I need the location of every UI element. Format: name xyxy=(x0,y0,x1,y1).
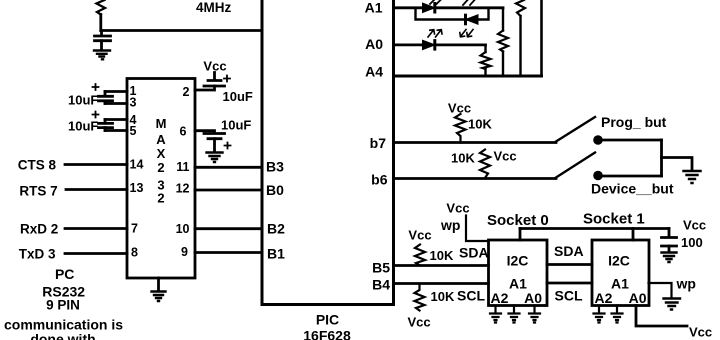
wire TxD to pin 8 xyxy=(65,252,127,255)
resistor R2 (A0 LED) xyxy=(484,45,486,76)
wire socket1 wp to ground xyxy=(649,283,672,298)
svg-text:14: 14 xyxy=(130,158,144,172)
resistor R6 10K (SDA pullup) xyxy=(415,245,425,266)
wire socket0 ground stubs xyxy=(496,306,535,313)
svg-text:SCL: SCL xyxy=(555,288,583,304)
wire socket1 A0 to Vcc xyxy=(636,306,687,327)
svg-text:A: A xyxy=(156,132,166,147)
wire socket0 stub to rail xyxy=(519,229,522,241)
svg-text:13: 13 xyxy=(130,181,144,195)
resistor R3 (upper row, cut off) xyxy=(516,0,525,16)
capacitor C2 10uF (pins 4-5) xyxy=(68,112,127,134)
ground (pin6 cap) xyxy=(207,153,223,163)
capacitor C1 10uF (pins 1-3) xyxy=(68,84,127,108)
svg-text:SDA: SDA xyxy=(554,243,584,259)
wire right vertical (buttons) xyxy=(660,140,663,176)
svg-text:Vcc: Vcc xyxy=(689,325,712,340)
svg-text:PIC: PIC xyxy=(316,312,339,328)
ground (socket0 A1) xyxy=(509,314,520,323)
svg-text:10uF: 10uF xyxy=(68,93,98,108)
svg-text:10: 10 xyxy=(176,222,190,236)
wire pin12 to B0 xyxy=(195,189,262,192)
PIC U1 box (left, right, bottom edges; top cropped) xyxy=(262,0,394,305)
svg-text:Vcc: Vcc xyxy=(494,149,517,164)
switch contact Device xyxy=(593,171,603,181)
svg-text:4MHz: 4MHz xyxy=(196,0,232,15)
svg-text:10uF: 10uF xyxy=(221,118,251,133)
wire B5/SDA to socket0 xyxy=(394,264,489,267)
svg-text:2: 2 xyxy=(157,191,164,206)
svg-text:16F628: 16F628 xyxy=(303,328,351,340)
svg-text:Vcc: Vcc xyxy=(448,101,471,116)
wire Prog contact to right xyxy=(603,139,662,142)
svg-text:X: X xyxy=(157,146,166,161)
svg-text:Socket 0: Socket 0 xyxy=(487,212,549,229)
LED D3 (A0, right-pointing) xyxy=(423,41,435,50)
MAX232 U2 box xyxy=(127,79,195,279)
svg-text:I2C: I2C xyxy=(608,253,630,269)
wire pin9 to B1 xyxy=(195,251,262,254)
svg-text:11: 11 xyxy=(176,160,189,174)
svg-text:A4: A4 xyxy=(365,64,383,80)
LED D2 (A1 reverse, left-pointing) xyxy=(466,15,478,24)
svg-text:SDA: SDA xyxy=(459,245,489,261)
LED D3 arrows (up-right) xyxy=(428,30,442,37)
MAX232 right pin numbers xyxy=(176,85,190,259)
svg-text:7: 7 xyxy=(131,222,138,236)
svg-text:wp: wp xyxy=(440,217,460,233)
wire A0 row xyxy=(394,44,486,47)
resistor R7 10K (SCL pullup) xyxy=(415,284,425,311)
svg-text:10K: 10K xyxy=(430,248,454,263)
ground (socket1 wp) xyxy=(664,299,681,310)
svg-text:6: 6 xyxy=(180,125,187,139)
svg-text:12: 12 xyxy=(176,181,190,195)
svg-text:10uF: 10uF xyxy=(223,89,253,104)
svg-text:3: 3 xyxy=(130,96,137,110)
svg-text:A1: A1 xyxy=(611,276,629,292)
wire oscillator node to PIC OSC pin xyxy=(101,29,262,32)
wire RTS to pin 13 xyxy=(66,188,127,191)
switch lever Prog xyxy=(556,117,595,142)
svg-text:I2C: I2C xyxy=(507,253,529,269)
svg-text:9 PIN: 9 PIN xyxy=(46,297,80,312)
svg-text:A2: A2 xyxy=(595,290,613,306)
svg-text:B2: B2 xyxy=(267,221,285,237)
LED D1 arrows (cut at top) xyxy=(430,0,441,4)
svg-text:Vcc: Vcc xyxy=(683,218,706,233)
svg-text:9: 9 xyxy=(181,245,188,259)
svg-text:5: 5 xyxy=(130,124,137,138)
wire MAX ground stub xyxy=(157,278,160,291)
svg-text:b7: b7 xyxy=(370,135,387,151)
svg-text:A0: A0 xyxy=(629,290,647,306)
svg-text:B4: B4 xyxy=(372,277,390,293)
svg-text:Prog_ but: Prog_ but xyxy=(601,114,667,130)
wire A4 common rail xyxy=(394,75,542,78)
svg-text:SCL: SCL xyxy=(457,288,485,304)
wire anti-parallel branch xyxy=(416,8,489,20)
svg-text:Vcc: Vcc xyxy=(446,201,469,216)
ground (socket0 A0) xyxy=(529,314,540,323)
wire wp to socket0 xyxy=(466,216,489,242)
svg-text:RTS 7: RTS 7 xyxy=(19,184,57,199)
wire far right vertical xyxy=(540,0,543,76)
wire resistor to junction xyxy=(99,15,102,31)
socket 0 I2C box xyxy=(489,240,548,306)
svg-text:100: 100 xyxy=(681,235,703,250)
wire junction to capacitor xyxy=(100,31,103,36)
svg-text:wp: wp xyxy=(676,276,696,292)
svg-text:done with: done with xyxy=(30,331,95,340)
wire Vcc rail (sockets) xyxy=(520,227,669,230)
svg-text:Vcc: Vcc xyxy=(408,228,431,243)
svg-text:Socket 1: Socket 1 xyxy=(583,211,645,228)
wire socket1 ground stubs xyxy=(599,306,617,313)
ground (socket1 A2) xyxy=(594,314,605,323)
wire A1 row xyxy=(394,6,504,9)
capacitor C3 10uF (pin 2 to Vcc) xyxy=(195,73,253,105)
MAX232 left pin numbers xyxy=(130,84,144,260)
svg-text:B0: B0 xyxy=(266,182,284,198)
svg-text:10K: 10K xyxy=(431,289,455,304)
ground (rail cap) xyxy=(662,253,677,263)
resistor R4 10K (b7 pullup) xyxy=(455,114,466,143)
svg-text:b6: b6 xyxy=(371,172,388,188)
label MAX232 vertical xyxy=(156,116,167,206)
wire pin11 to B3 xyxy=(195,166,262,169)
oscillator capacitor xyxy=(95,36,111,41)
svg-text:PC: PC xyxy=(55,266,74,282)
socket 1 I2C box xyxy=(592,240,649,306)
svg-text:2: 2 xyxy=(183,85,190,99)
wire b7 xyxy=(394,141,557,144)
resistor R1 (A1 LED) xyxy=(502,8,504,76)
capacitor C4 10uF (pin 6 to ground) xyxy=(195,118,251,152)
wire socket1 stub to rail xyxy=(632,229,635,241)
LED D2 arrows (down-left) xyxy=(460,0,475,37)
svg-text:Vcc: Vcc xyxy=(408,315,431,330)
svg-text:10K: 10K xyxy=(468,117,492,132)
svg-text:A0: A0 xyxy=(365,36,383,52)
svg-text:B3: B3 xyxy=(266,159,284,175)
ground (socket0 A2) xyxy=(490,314,501,323)
svg-text:10uF: 10uF xyxy=(68,119,98,134)
wire b6 xyxy=(394,177,557,180)
svg-text:A0: A0 xyxy=(524,290,542,306)
svg-text:B5: B5 xyxy=(372,260,390,276)
ground (MAX232 pin15) xyxy=(152,292,166,302)
LED D1 (A1, right-pointing) xyxy=(423,4,435,13)
svg-text:A1: A1 xyxy=(365,0,383,16)
switch lever Device xyxy=(556,153,595,178)
svg-text:A2: A2 xyxy=(491,290,509,306)
resistor R5 10K (b6 pullup) xyxy=(480,150,490,179)
svg-text:RxD 2: RxD 2 xyxy=(20,222,58,237)
svg-text:8: 8 xyxy=(131,246,138,260)
svg-text:10K: 10K xyxy=(451,151,475,166)
wire pin10 to B2 xyxy=(195,227,262,230)
ground (socket1 A1) xyxy=(612,314,623,323)
svg-text:TxD 3: TxD 3 xyxy=(19,247,56,262)
svg-text:CTS 8: CTS 8 xyxy=(18,158,57,173)
capacitor C5 100 (rail decoupling) xyxy=(668,229,671,238)
svg-text:Device__but: Device__but xyxy=(591,181,674,197)
ground (buttons) xyxy=(684,171,701,183)
wire buttons to ground xyxy=(662,158,693,170)
ground (oscillator) xyxy=(94,51,110,60)
wire RxD to pin 7 xyxy=(65,227,127,230)
svg-text:2: 2 xyxy=(157,160,164,175)
switch contact Prog xyxy=(593,135,603,145)
wire capacitor to ground xyxy=(100,41,103,50)
wire SCL between sockets xyxy=(547,282,592,285)
wire Device contact to right xyxy=(603,175,662,178)
oscillator resistor (top left, cut off) xyxy=(97,0,106,15)
svg-text:B1: B1 xyxy=(267,246,285,262)
svg-text:M: M xyxy=(156,116,167,131)
wire SDA between sockets xyxy=(547,263,592,266)
wire B4/SCL to socket0 xyxy=(394,282,489,285)
wire CTS to pin 14 xyxy=(65,163,127,166)
